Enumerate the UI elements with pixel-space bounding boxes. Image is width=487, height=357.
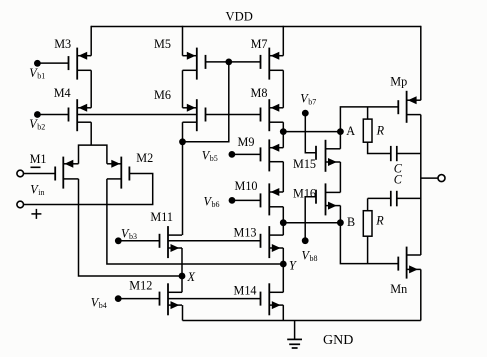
transistor M1 <box>55 157 78 189</box>
Vb4 terminal dot <box>115 295 122 302</box>
junction dot M8 drain <box>280 128 287 135</box>
minus sign <box>31 166 41 168</box>
svg-text:M3: M3 <box>54 37 71 51</box>
capacitor C1 <box>390 146 392 161</box>
wire M5 drain to M6 source <box>182 70 184 108</box>
svg-text:M14: M14 <box>234 283 257 297</box>
input terminal plus <box>17 201 24 208</box>
wire M7 drain to M8 source <box>282 70 284 108</box>
resistor R2 <box>363 211 372 237</box>
node B dot <box>337 219 344 226</box>
transistor Mp <box>398 91 421 123</box>
svg-text:M1: M1 <box>30 152 47 166</box>
transistor M8 <box>261 99 284 131</box>
resistor R2 lead bottom <box>367 236 369 263</box>
svg-text:b8: b8 <box>310 254 318 263</box>
VDD rail <box>91 26 421 28</box>
capacitor C2 left lead <box>368 197 391 199</box>
transistor M16 <box>316 183 340 215</box>
wire Vin+ to M2 gate <box>24 174 153 205</box>
wire junction to node A <box>283 131 340 133</box>
node X dot <box>179 273 186 280</box>
wire M12 drain to X <box>181 276 183 292</box>
wire Vb8 to M16 gate <box>305 197 316 241</box>
wire M5 gate to M7 gate <box>206 61 261 63</box>
junction dot M5/M7 gates <box>225 59 232 66</box>
svg-text:VDD: VDD <box>226 10 253 24</box>
transistor M14 <box>261 283 284 315</box>
svg-text:M5: M5 <box>154 37 171 51</box>
wire Vb2 to M4 gate <box>37 114 68 116</box>
svg-text:M12: M12 <box>129 279 152 293</box>
wire junction to node B <box>283 222 340 224</box>
Vb2 terminal dot <box>34 111 41 118</box>
wire M6 drain down <box>182 122 184 142</box>
svg-text:M8: M8 <box>251 86 268 100</box>
wire M12 body to M14 gate <box>168 298 261 300</box>
wire M16 source to B <box>339 206 341 223</box>
svg-text:M11: M11 <box>150 210 173 224</box>
wire M3 drain to M4 source <box>90 70 92 108</box>
resistor R1 lead bottom to C1 <box>368 142 391 153</box>
Vb3 terminal dot <box>115 237 122 244</box>
input terminal minus <box>17 170 24 177</box>
wire M4 drain to tail <box>90 122 92 145</box>
transistor M3 <box>69 48 92 80</box>
wire Vb4 to M12 gate <box>118 298 159 300</box>
wire M4 body to M6 body <box>77 114 197 116</box>
svg-text:M10: M10 <box>235 179 258 193</box>
svg-text:M7: M7 <box>251 37 268 51</box>
wire Mn source to ground rail <box>420 269 422 320</box>
svg-text:b4: b4 <box>99 301 107 310</box>
transistor M2 <box>107 157 129 189</box>
svg-text:M9: M9 <box>238 135 255 149</box>
svg-text:R: R <box>376 123 385 137</box>
transistor M7 <box>261 48 284 80</box>
output terminal <box>438 175 445 182</box>
svg-text:b6: b6 <box>212 200 220 209</box>
Vb8 terminal dot <box>302 237 309 244</box>
wire M15 drain to A <box>339 132 341 149</box>
svg-text:A: A <box>346 124 355 138</box>
wire M11 body to M13 gate <box>168 240 261 242</box>
svg-text:GND: GND <box>323 333 353 348</box>
svg-text:B: B <box>347 215 355 229</box>
wire M2 drain to Y <box>107 179 283 264</box>
Vb1 terminal dot <box>34 60 41 67</box>
wire Vb6 to M10 gate <box>232 199 261 201</box>
wire M13 drain up to junction <box>282 223 284 235</box>
capacitor C2 <box>390 191 392 207</box>
svg-text:M4: M4 <box>54 86 71 100</box>
wire C2 to R2 top <box>367 198 369 210</box>
transistor M13 <box>261 226 284 258</box>
svg-text:M2: M2 <box>136 151 153 165</box>
capacitor C2 right lead <box>397 197 421 199</box>
svg-text:M15: M15 <box>293 157 316 171</box>
svg-text:R: R <box>375 214 384 228</box>
wire Vb3 to M11 gate <box>118 240 159 242</box>
plus sign <box>31 213 41 215</box>
resistor R1 lead top <box>367 107 369 119</box>
svg-text:b7: b7 <box>308 97 316 106</box>
transistor M11 <box>160 226 183 258</box>
wire Vb7 to M15 gate <box>305 113 316 153</box>
Vb6 terminal dot <box>229 197 236 204</box>
wire M10 drain to B-line junction <box>282 207 284 223</box>
Vb5 terminal dot <box>229 151 236 158</box>
capacitor C1 right lead <box>397 153 421 155</box>
wire A up to Mp gate <box>340 107 398 132</box>
wire Vin- to M1 gate <box>24 173 56 175</box>
wire M13 source to Y <box>282 248 284 264</box>
Vb7 terminal dot <box>302 110 309 117</box>
wire Vb5 to M9 gate <box>232 153 261 155</box>
output node vertical wire <box>420 115 422 255</box>
junction dot M10 drain <box>280 219 287 226</box>
wire M14 drain to Y <box>282 264 284 292</box>
wire M14 source to ground rail <box>282 305 284 320</box>
transistor M12 <box>160 283 183 315</box>
wire Vb1 to M3 gate <box>37 62 68 64</box>
ground rail <box>183 320 421 322</box>
wire M3 source to VDD <box>90 26 92 56</box>
wire M8 drain to A-line junction <box>282 122 284 131</box>
wire M1 drain to X <box>79 179 183 276</box>
transistor M9 <box>261 139 284 171</box>
transistor M15 <box>316 140 340 172</box>
svg-text:C: C <box>394 172 403 186</box>
junction dot M6 drain <box>179 138 186 145</box>
transistor Mn <box>398 247 421 279</box>
ground symbol <box>287 321 302 349</box>
wire Mp source to VDD <box>420 26 422 100</box>
wire M9 source up to junction <box>282 132 284 148</box>
wire gate junction down to M6 drain node <box>183 62 229 142</box>
resistor R1 <box>363 119 372 142</box>
wire M6 gate to M8 gate <box>206 114 261 116</box>
wire M7 source to VDD <box>282 26 284 56</box>
svg-text:Mn: Mn <box>390 282 407 296</box>
wire M6 drain node down to M11 drain <box>182 142 184 235</box>
tail wire <box>79 145 107 164</box>
transistor M5 <box>183 48 206 80</box>
svg-text:in: in <box>38 188 44 197</box>
svg-text:M13: M13 <box>234 225 257 239</box>
svg-text:b2: b2 <box>37 123 45 132</box>
transistor M6 <box>183 99 206 131</box>
wire M5 source to VDD <box>182 26 184 56</box>
node Y dot <box>280 261 287 268</box>
svg-text:X: X <box>187 270 196 284</box>
wire M15 source to M16 drain <box>339 162 341 192</box>
svg-text:b1: b1 <box>37 72 45 81</box>
svg-text:b3: b3 <box>129 232 137 241</box>
wire M11 source to X <box>181 248 183 276</box>
svg-text:Mp: Mp <box>390 75 407 89</box>
output stub wire <box>421 177 438 179</box>
transistor M10 <box>261 183 284 215</box>
svg-text:M6: M6 <box>154 88 171 102</box>
transistor M4 <box>69 99 92 131</box>
svg-text:b5: b5 <box>210 154 218 163</box>
wire M9 drain to M10 source <box>282 162 284 192</box>
wire M12 source to ground rail <box>182 305 184 320</box>
wire B down to Mn gate <box>340 223 398 264</box>
node A dot <box>337 128 344 135</box>
